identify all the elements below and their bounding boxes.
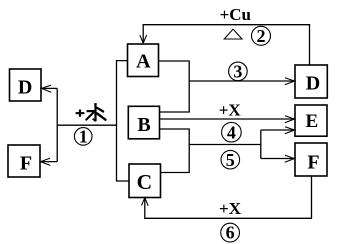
svg-text:4: 4 — [227, 122, 236, 142]
label plus of +water — [76, 110, 85, 117]
svg-text:E: E — [305, 111, 318, 132]
wire split vertical to E and F — [260, 130, 262, 159]
wire bus left of A B C — [117, 61, 130, 181]
wire 4 +X from B to E — [160, 118, 295, 120]
arrowhead right into F — [285, 155, 295, 162]
circle 1 — [74, 128, 92, 146]
svg-text:6: 6 — [226, 223, 235, 243]
arrowhead right into E lower — [285, 127, 295, 134]
svg-text:2: 2 — [257, 26, 266, 46]
svg-text:C: C — [137, 170, 153, 194]
box F (left) — [8, 145, 40, 177]
wire B bottom right to C right vertical — [160, 129, 190, 173]
circle 5 — [221, 150, 240, 169]
wire 5 line — [189, 144, 261, 146]
svg-text:+Cu: +Cu — [220, 5, 251, 24]
svg-text:5: 5 — [226, 150, 235, 170]
svg-text:A: A — [136, 51, 151, 73]
wire branch vertical to D and F — [56, 88, 58, 161]
wire +water line — [57, 124, 116, 126]
wire split to E — [261, 129, 295, 131]
hanzi water drawn with strokes — [86, 104, 105, 122]
wire split to F right — [261, 158, 295, 160]
arrowhead left into D — [42, 85, 52, 92]
wire 6 from F bottom to C bottom — [145, 176, 312, 218]
circle 6 — [221, 223, 240, 242]
box B — [128, 106, 159, 139]
circle 3 — [229, 62, 248, 81]
box D (left) — [10, 69, 42, 101]
box E — [295, 105, 327, 136]
circle 4 — [222, 122, 242, 142]
box F (right) — [295, 143, 327, 176]
wire into D left box — [42, 87, 58, 89]
wire 3 to D right — [189, 80, 294, 82]
wire into F left box — [41, 161, 58, 163]
circle 2 — [252, 26, 271, 45]
triangle heat symbol — [224, 29, 242, 39]
wire A right — [159, 61, 190, 112]
arrowhead down into A — [140, 35, 147, 43]
svg-text:1: 1 — [79, 127, 88, 147]
arrowhead right into E — [285, 116, 295, 123]
arrowhead up into C — [142, 198, 149, 206]
arrowhead right into D — [285, 78, 295, 85]
box A — [128, 44, 159, 77]
svg-text:D: D — [18, 77, 32, 99]
arrowhead left into F — [41, 158, 51, 165]
svg-text:F: F — [20, 153, 32, 175]
wire +Cu top line from D top to A top — [143, 25, 309, 65]
svg-text:+X: +X — [219, 101, 242, 120]
svg-text:F: F — [307, 151, 319, 173]
svg-text:D: D — [306, 72, 320, 94]
box D (right) — [295, 65, 327, 98]
svg-text:B: B — [137, 114, 150, 136]
box C — [129, 164, 161, 198]
svg-text:3: 3 — [233, 62, 242, 82]
svg-text:+X: +X — [219, 199, 242, 218]
